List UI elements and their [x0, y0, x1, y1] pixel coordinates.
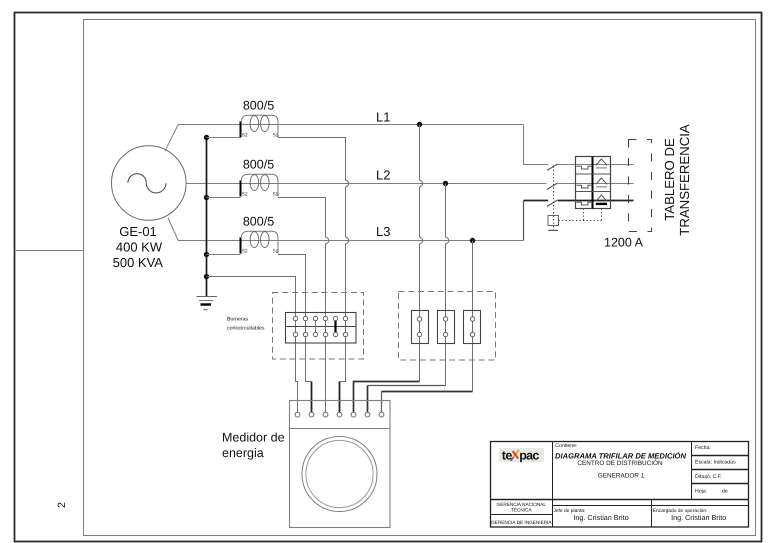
hop V2 over L3 [446, 237, 449, 243]
junction bus neutral tap [204, 274, 209, 279]
link col3 [315, 321, 317, 333]
svg-text:S2: S2 [242, 248, 248, 253]
wire CT1 S2 to bus [207, 137, 241, 139]
breaker block row divider 1 [576, 173, 611, 175]
junction L1 voltage tap [417, 122, 422, 127]
wire CT3 S2 to bus [207, 254, 241, 256]
svg-text:TRANSFERENCIA: TRANSFERENCIA [677, 124, 692, 236]
svg-text:GERENCIA NACIONAL: GERENCIA NACIONAL [497, 502, 547, 507]
svg-text:L1: L1 [376, 110, 390, 125]
wire col2 to meter t2 (thick) [311, 382, 313, 413]
junction L2 voltage tap [443, 181, 448, 186]
meter M1 box [290, 401, 391, 528]
hop V1 over L3 [420, 237, 423, 243]
junction bus L2-CT [204, 195, 209, 200]
svg-text:1200 A: 1200 A [604, 236, 644, 250]
link col5 (shorting, thick) [334, 321, 336, 333]
title block texts [491, 443, 736, 525]
svg-text:Fecha:: Fecha: [695, 445, 711, 451]
title block frame [491, 442, 749, 528]
junction bus L3-CT [204, 252, 209, 257]
wire V2 to meter t6 drop (thick) [367, 386, 369, 413]
wire V3 to meter t7 run (thick) [382, 391, 473, 393]
hop CT1-S1 over L2 [346, 180, 349, 186]
wire L1 drop to switch row1 [524, 125, 549, 165]
wire L3 rise vertical [523, 201, 525, 241]
wire col6 to meter t4 (thick) [339, 382, 341, 413]
fuse F2 [438, 311, 455, 344]
trip coil bar [548, 229, 558, 231]
svg-text:Ing. Cristian Brito: Ing. Cristian Brito [573, 513, 628, 522]
wire L3 row3 to switch (thick) [524, 200, 549, 202]
wire generator to L3 [168, 218, 523, 241]
drawout contact row1 [596, 159, 607, 168]
svg-text:800/5: 800/5 [243, 214, 274, 228]
switch blade row2 [547, 183, 558, 189]
svg-text:GERENCIA DE INGENIERÍA: GERENCIA DE INGENIERÍA [491, 519, 552, 525]
svg-text:TABLERO DE: TABLERO DE [662, 138, 677, 221]
svg-text:TÉCNICA: TÉCNICA [511, 507, 532, 513]
wire V2 to meter t6 run [368, 385, 446, 387]
svg-text:2: 2 [56, 502, 68, 508]
label GE-01 400 KW 500 KVA [113, 224, 164, 270]
breaker block middle divider (thick) [592, 157, 594, 209]
svg-text:S2: S2 [242, 191, 248, 196]
linkage dotted vertical right [601, 209, 603, 221]
fuse F3 [464, 311, 481, 344]
stub row1 block to tablero [611, 164, 634, 166]
svg-text:energia: energia [222, 446, 264, 460]
ground [197, 297, 218, 310]
trip coil box [548, 216, 559, 226]
fuse F2 circles [443, 317, 448, 337]
svg-text:S2: S2 [242, 132, 248, 137]
fuse F1 [412, 311, 429, 344]
svg-text:400 KW: 400 KW [116, 240, 163, 255]
wire V3 to meter t7 drop [381, 392, 383, 413]
hop CT1-S1 over L3 [346, 237, 349, 243]
svg-text:pac: pac [519, 448, 539, 462]
svg-text:CENTRO DE DISTRIBUCIÓN: CENTRO DE DISTRIBUCIÓN [577, 459, 663, 467]
drawout contact row2 [596, 178, 607, 187]
svg-text:cortocircuitables: cortocircuitables [227, 325, 265, 331]
tablero dashed enclosure [629, 140, 652, 232]
wire CT2 S2 to bus [207, 197, 241, 199]
generator GE-01 circle [112, 146, 187, 221]
left margin divider [15, 250, 84, 252]
svg-text:Contiene:: Contiene: [555, 443, 577, 449]
svg-text:L2: L2 [376, 168, 390, 183]
wire row1 through block left cell [576, 164, 593, 166]
fuse F1 circles [417, 317, 422, 337]
meter M1 terminals [295, 412, 384, 417]
svg-text:Escala: Indicadas: Escala: Indicadas [695, 460, 736, 466]
drawout socket row1 [576, 166, 592, 169]
meter M1 divider [290, 428, 391, 430]
wire CT3 S1 to terminal col2 [278, 255, 312, 382]
junction bus L1-CT [204, 135, 209, 140]
wire CT2 S1 to terminal col4 [278, 198, 326, 413]
svg-text:S1: S1 [273, 191, 279, 196]
svg-text:500 KVA: 500 KVA [113, 255, 164, 270]
wire row1 through block right cell [593, 164, 611, 166]
hop CT2-S1 over L3 [326, 237, 329, 243]
wire row1 switch to block [558, 164, 576, 166]
svg-text:Borneras: Borneras [227, 317, 248, 323]
CT TC2 800/5 (L2) [241, 174, 279, 196]
svg-text:S1: S1 [273, 132, 279, 137]
svg-text:GENERADOR 1: GENERADOR 1 [598, 473, 645, 480]
svg-text:Ing. Cristian Brito: Ing. Cristian Brito [671, 513, 726, 522]
fuse F3 circles [470, 317, 475, 337]
hop V1 over L2 [420, 180, 423, 186]
linkage dotted vertical left [583, 209, 585, 221]
label Medidor de energia [222, 431, 285, 461]
texpac logo [499, 448, 544, 463]
neutral bus [206, 138, 208, 297]
meter M1 dial inner [306, 440, 373, 507]
stub row3 block to tablero (thick) [611, 200, 634, 202]
wire row3 switch to block (thick) [558, 200, 576, 202]
svg-text:L3: L3 [376, 224, 390, 239]
wire row3 through block right cell (thick) [593, 200, 611, 202]
wire CT1 S1 to terminal col6 [278, 138, 346, 382]
svg-text:Hoja:: Hoja: [695, 488, 707, 494]
junction L3 voltage tap [470, 238, 475, 243]
svg-text:de: de [722, 488, 728, 494]
linkage dotted horizontal [559, 220, 602, 222]
CT TC1 800/5 (L1) [241, 115, 279, 137]
terminal circles X1 [293, 316, 348, 337]
drawout socket row2 [576, 185, 592, 188]
fuse block dashed enclosure [399, 292, 496, 361]
wire generator to L1 [165, 125, 524, 152]
CT TC3 800/5 (L3) [241, 231, 279, 253]
wire V2 L2 tap to fuse F2 [445, 184, 447, 386]
svg-text:Medidor de: Medidor de [222, 431, 285, 445]
svg-text:GE-01: GE-01 [119, 224, 157, 239]
drawout contact row3 [596, 195, 607, 204]
svg-text:S1: S1 [273, 248, 279, 253]
wire row3 through block left cell (thick) [576, 200, 593, 202]
switch linkage dotted [553, 167, 555, 231]
svg-text:800/5: 800/5 [243, 157, 274, 171]
terminal strip X1 [286, 313, 357, 344]
switch blade row3 [547, 200, 558, 206]
breaker block outline [576, 157, 611, 209]
switch blade row1 [547, 164, 558, 170]
breaker block row divider 2 [576, 191, 611, 193]
wire V1 L1 tap to fuse F1 [419, 125, 421, 382]
terminal block dashed enclosure [273, 293, 364, 360]
wire row2 switch to block [558, 183, 634, 185]
wire bus neutral to terminal col1 [207, 277, 298, 413]
meter M1 dial outer [302, 437, 377, 512]
svg-text:800/5: 800/5 [243, 98, 274, 112]
drawout socket row3 [576, 202, 592, 205]
wire V3 L3 tap to fuse F3 [472, 241, 474, 392]
wire generator to L2 [186, 183, 546, 185]
wire V1 to meter t5 (thick) [354, 382, 420, 413]
generator sine symbol [128, 174, 166, 193]
label Borneras cortocircuitables [227, 317, 265, 332]
svg-text:Dibujó: C.F.: Dibujó: C.F. [695, 474, 722, 480]
